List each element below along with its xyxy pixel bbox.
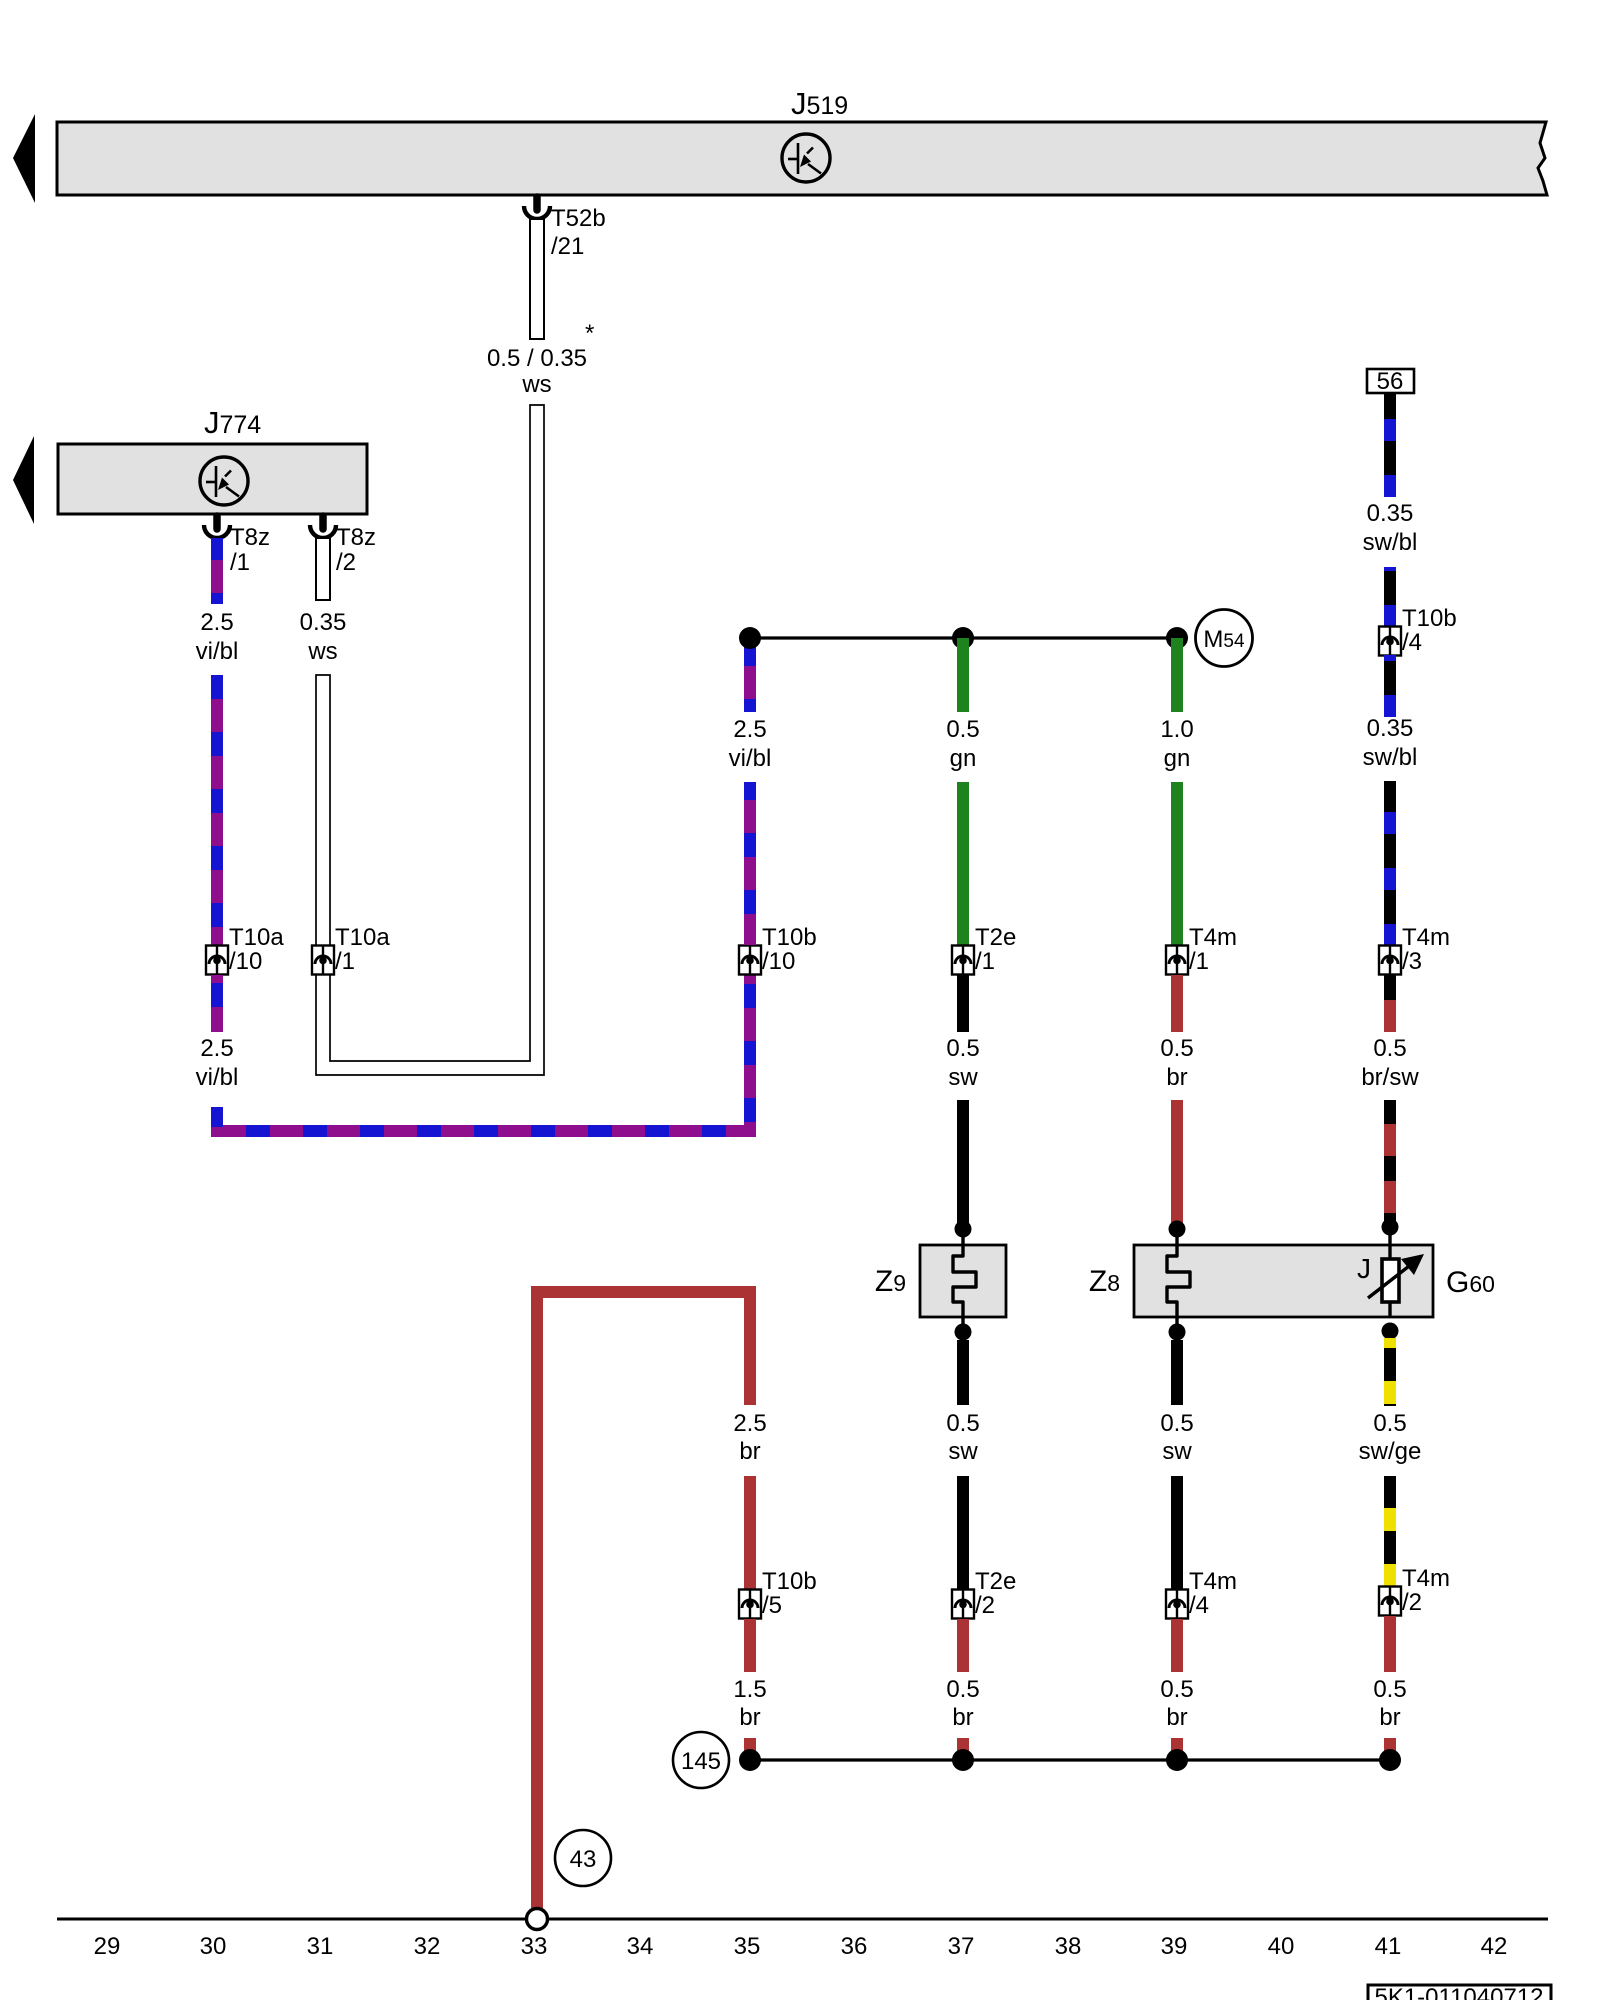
svg-text:0.5: 0.5 xyxy=(1160,1676,1193,1703)
in-line connector T10b/10 xyxy=(739,946,761,975)
wire br below T4m/4 xyxy=(1171,1619,1183,1672)
wire gn col E segment 2 xyxy=(957,782,969,945)
svg-text:/1: /1 xyxy=(230,549,250,576)
svg-text:J519: J519 xyxy=(791,86,848,121)
svg-text:0.5: 0.5 xyxy=(946,1035,979,1062)
heater element Z8 + sender G60 box xyxy=(1134,1245,1433,1317)
wire br stub to ground bus col G xyxy=(1384,1738,1396,1760)
ground terminal 43 (open circle on baseline) xyxy=(527,1909,548,1930)
wire ws from T52b/21 (white, upper segment) xyxy=(530,219,544,339)
svg-text:2.5: 2.5 xyxy=(733,1410,766,1437)
svg-text:29: 29 xyxy=(94,1933,121,1960)
junction dot col F xyxy=(1166,627,1188,649)
svg-text:40: 40 xyxy=(1268,1933,1295,1960)
svg-text:0.5 / 0.35: 0.5 / 0.35 xyxy=(487,345,587,372)
ground bus 145 xyxy=(750,1758,1390,1761)
wire br below T4m/2 xyxy=(1384,1616,1396,1672)
wire br stub to ground bus col D xyxy=(744,1738,756,1760)
ground label 145 xyxy=(673,1732,729,1788)
wire sw below Z9 xyxy=(957,1340,969,1405)
in-line connector T10b/5 xyxy=(739,1590,761,1619)
svg-text:34: 34 xyxy=(627,1933,654,1960)
junction dot ground col F xyxy=(1166,1749,1188,1771)
wire sw/ge below G60 xyxy=(1384,1338,1396,1406)
svg-text:br: br xyxy=(739,1438,760,1465)
in-line connector T4m/4 xyxy=(1166,1590,1188,1619)
svg-text:gn: gn xyxy=(950,745,977,772)
wire br below T10b/5 xyxy=(744,1619,756,1672)
svg-text:vi/bl: vi/bl xyxy=(196,638,239,665)
Z8 element xyxy=(1167,1245,1190,1317)
svg-text:br/sw: br/sw xyxy=(1361,1064,1419,1091)
svg-text:0.5: 0.5 xyxy=(946,1410,979,1437)
wire sw/ge col G to T4m/2 xyxy=(1384,1476,1396,1587)
svg-text:0.5: 0.5 xyxy=(1160,1410,1193,1437)
wire gn col F segment 2 xyxy=(1171,782,1183,945)
svg-text:T4m: T4m xyxy=(1402,1565,1450,1592)
wire br stub to ground bus col E xyxy=(957,1738,969,1760)
heater element Z9 xyxy=(920,1245,1006,1317)
svg-text:br: br xyxy=(952,1704,973,1731)
in-line connector T4m/3 xyxy=(1379,946,1401,975)
wire sw col E below T2e/1 xyxy=(957,975,969,1032)
wire sw col E to Z9 xyxy=(957,1100,969,1229)
wire br col F below T4m/1 xyxy=(1171,975,1183,1032)
wire sw/bl col G segment 3 xyxy=(1384,655,1396,717)
svg-text:br: br xyxy=(1166,1064,1187,1091)
svg-text:30: 30 xyxy=(200,1933,227,1960)
wire ws U-run (col B down, across, up col C to T52b) xyxy=(316,405,544,1075)
terminal T8z/1 on J774 xyxy=(204,516,230,538)
svg-text:1.5: 1.5 xyxy=(733,1676,766,1703)
svg-text:43: 43 xyxy=(570,1846,597,1873)
svg-text:Z9: Z9 xyxy=(875,1265,906,1298)
svg-text:sw/bl: sw/bl xyxy=(1363,744,1418,771)
continuation arrow left of J774 xyxy=(13,436,34,524)
svg-text:gn: gn xyxy=(1164,745,1191,772)
svg-text:32: 32 xyxy=(414,1933,441,1960)
svg-text:0.5: 0.5 xyxy=(946,716,979,743)
svg-text:/10: /10 xyxy=(762,948,795,975)
wire ws column B segment 1 xyxy=(316,538,330,600)
svg-text:35: 35 xyxy=(734,1933,761,1960)
wire sw col E to T2e/2 xyxy=(957,1476,969,1590)
svg-text:0.35: 0.35 xyxy=(300,609,347,636)
svg-text:T10b: T10b xyxy=(1402,605,1457,632)
wire sw/bl col G segment 1 xyxy=(1384,393,1396,497)
svg-text:5K1-011040712: 5K1-011040712 xyxy=(1374,1984,1543,2000)
diagram number plate xyxy=(1368,1985,1551,2000)
in-line connector T4m/2 xyxy=(1379,1587,1401,1616)
svg-text:/1: /1 xyxy=(975,948,995,975)
svg-text:1.0: 1.0 xyxy=(1160,716,1193,743)
svg-text:T52b: T52b xyxy=(551,205,606,232)
svg-text:T10b: T10b xyxy=(762,924,817,951)
wire vi/bl column A segment 2 xyxy=(211,675,223,945)
svg-text:vi/bl: vi/bl xyxy=(196,1064,239,1091)
svg-text:Z8: Z8 xyxy=(1089,1265,1120,1298)
svg-text:J774: J774 xyxy=(204,405,261,440)
svg-text:/1: /1 xyxy=(1189,948,1209,975)
wire br below T2e/2 xyxy=(957,1619,969,1672)
svg-text:0.35: 0.35 xyxy=(1367,715,1414,742)
svg-text:/4: /4 xyxy=(1402,629,1422,656)
svg-text:br: br xyxy=(1166,1704,1187,1731)
ground label 43 xyxy=(555,1830,611,1886)
junction dot above G60 xyxy=(1388,1227,1391,1245)
K symbol in J519 xyxy=(782,134,830,182)
fuse box 56 xyxy=(1367,369,1414,393)
svg-text:T8z: T8z xyxy=(336,524,376,551)
wire gn 0.5 col E upper xyxy=(957,638,969,712)
svg-text:T10a: T10a xyxy=(229,924,284,951)
svg-text:T4m: T4m xyxy=(1402,924,1450,951)
svg-text:39: 39 xyxy=(1161,1933,1188,1960)
wire sw/bl col G segment 2 xyxy=(1384,567,1396,627)
continuation arrow left of J519 xyxy=(13,114,35,203)
svg-text:/21: /21 xyxy=(551,233,584,260)
svg-text:/2: /2 xyxy=(975,1592,995,1619)
control unit J519 bar xyxy=(57,122,1547,195)
junction dot ground col D xyxy=(739,1749,761,1771)
in-line connector T2e/2 xyxy=(952,1590,974,1619)
junction dot col E xyxy=(952,627,974,649)
wire gn 1.0 col F upper xyxy=(1171,638,1183,712)
svg-text:J: J xyxy=(1357,1253,1371,1284)
svg-text:sw: sw xyxy=(948,1438,978,1465)
svg-text:/4: /4 xyxy=(1189,1592,1209,1619)
svg-text:T2e: T2e xyxy=(975,1568,1016,1595)
svg-text:/5: /5 xyxy=(762,1592,782,1619)
junction dot below Z9 xyxy=(955,1324,972,1341)
sender G60 variable resistor xyxy=(1368,1245,1424,1317)
svg-text:T4m: T4m xyxy=(1189,924,1237,951)
svg-text:42: 42 xyxy=(1481,1933,1508,1960)
svg-text:0.35: 0.35 xyxy=(1367,500,1414,527)
svg-text:br: br xyxy=(1379,1704,1400,1731)
svg-text:2.5: 2.5 xyxy=(200,1035,233,1062)
svg-text:T10b: T10b xyxy=(762,1568,817,1595)
svg-text:33: 33 xyxy=(521,1933,548,1960)
svg-text:0.5: 0.5 xyxy=(1160,1035,1193,1062)
wire br/sw col G below T4m/3 xyxy=(1384,975,1396,1032)
svg-text:36: 36 xyxy=(841,1933,868,1960)
svg-text:41: 41 xyxy=(1375,1933,1402,1960)
svg-text:2.5: 2.5 xyxy=(200,609,233,636)
terminal T52b/21 on J519 xyxy=(524,197,550,219)
svg-text:0.5: 0.5 xyxy=(1373,1035,1406,1062)
svg-text:sw: sw xyxy=(1162,1438,1192,1465)
svg-text:sw: sw xyxy=(948,1064,978,1091)
wire br/sw col G to G60 xyxy=(1384,1100,1396,1227)
svg-text:38: 38 xyxy=(1055,1933,1082,1960)
wire sw/bl col G segment 4 xyxy=(1384,781,1396,946)
node bus M54 xyxy=(750,636,1177,639)
svg-text:G60: G60 xyxy=(1446,1266,1495,1299)
junction dot ground col G xyxy=(1379,1749,1401,1771)
wire br col F to Z8 xyxy=(1171,1100,1183,1229)
K symbol in J774 xyxy=(200,457,248,505)
grid numbers 29-42 xyxy=(94,1933,1508,1960)
in-line connector T4m/1 xyxy=(1166,946,1188,975)
svg-text:br: br xyxy=(739,1704,760,1731)
svg-text:ws: ws xyxy=(307,638,337,665)
svg-text:T10a: T10a xyxy=(335,924,390,951)
wire br stub to ground bus col F xyxy=(1171,1738,1183,1760)
wire sw below Z8 xyxy=(1171,1340,1183,1405)
svg-text:56: 56 xyxy=(1377,368,1404,395)
wire vi/bl column A segment 3 xyxy=(211,975,223,1032)
svg-text:/10: /10 xyxy=(229,948,262,975)
svg-text:0.5: 0.5 xyxy=(946,1676,979,1703)
svg-text:/3: /3 xyxy=(1402,948,1422,975)
junction dot ground col E xyxy=(952,1749,974,1771)
svg-text:2.5: 2.5 xyxy=(733,716,766,743)
junction dot above Z9 xyxy=(961,1229,964,1245)
wire br big loop: col C down to terminal 43, across to col D xyxy=(537,1292,750,1908)
in-line connector T2e/1 xyxy=(952,946,974,975)
junction dot below G60 xyxy=(1382,1323,1399,1340)
svg-text:/2: /2 xyxy=(336,549,356,576)
svg-text:/2: /2 xyxy=(1402,1589,1422,1616)
svg-text:37: 37 xyxy=(948,1933,975,1960)
wire br col D to T10b/5 xyxy=(744,1476,756,1590)
svg-text:/1: /1 xyxy=(335,948,355,975)
svg-text:T2e: T2e xyxy=(975,924,1016,951)
wire sw col F to T4m/4 xyxy=(1171,1476,1183,1590)
wire vi/bl column D upper segment xyxy=(744,782,756,945)
svg-text:0.5: 0.5 xyxy=(1373,1410,1406,1437)
in-line connector T10a/10 xyxy=(206,946,228,975)
svg-text:*: * xyxy=(585,320,594,347)
control unit J774 bar xyxy=(58,444,367,514)
svg-text:T8z: T8z xyxy=(230,524,270,551)
wire vi/bl col D top stub to node xyxy=(744,638,756,712)
svg-text:0.5: 0.5 xyxy=(1373,1676,1406,1703)
svg-text:T4m: T4m xyxy=(1189,1568,1237,1595)
node label M54 xyxy=(1196,610,1253,667)
in-line connector T10b/4 xyxy=(1379,627,1401,656)
wire vi/bl L-run from col A to col D up to M54 node xyxy=(217,975,750,1131)
svg-text:31: 31 xyxy=(307,1933,334,1960)
baseline grid rule xyxy=(57,1918,1548,1921)
junction dot above Z8 xyxy=(1175,1229,1178,1245)
junction dot below Z8 xyxy=(1169,1324,1186,1341)
svg-text:vi/bl: vi/bl xyxy=(729,745,772,772)
svg-text:145: 145 xyxy=(681,1748,721,1775)
terminal T8z/2 on J774 xyxy=(310,516,336,538)
wire vi/bl column A segment 1 xyxy=(211,538,223,604)
svg-text:sw/bl: sw/bl xyxy=(1363,529,1418,556)
svg-text:sw/ge: sw/ge xyxy=(1359,1438,1422,1465)
svg-text:ws: ws xyxy=(521,371,551,398)
in-line connector T10a/1 xyxy=(312,946,334,975)
svg-text:M54: M54 xyxy=(1203,626,1245,653)
junction dot col D xyxy=(739,627,761,649)
